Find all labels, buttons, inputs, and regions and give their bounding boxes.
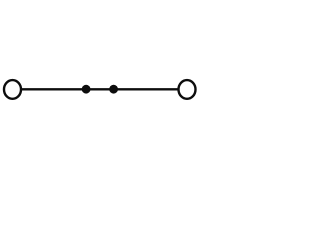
wire bbox=[21, 88, 179, 90]
terminal circle left bbox=[4, 80, 21, 99]
junction dot left bbox=[82, 85, 91, 94]
terminal circle right bbox=[179, 80, 196, 99]
junction dot right bbox=[109, 85, 118, 94]
